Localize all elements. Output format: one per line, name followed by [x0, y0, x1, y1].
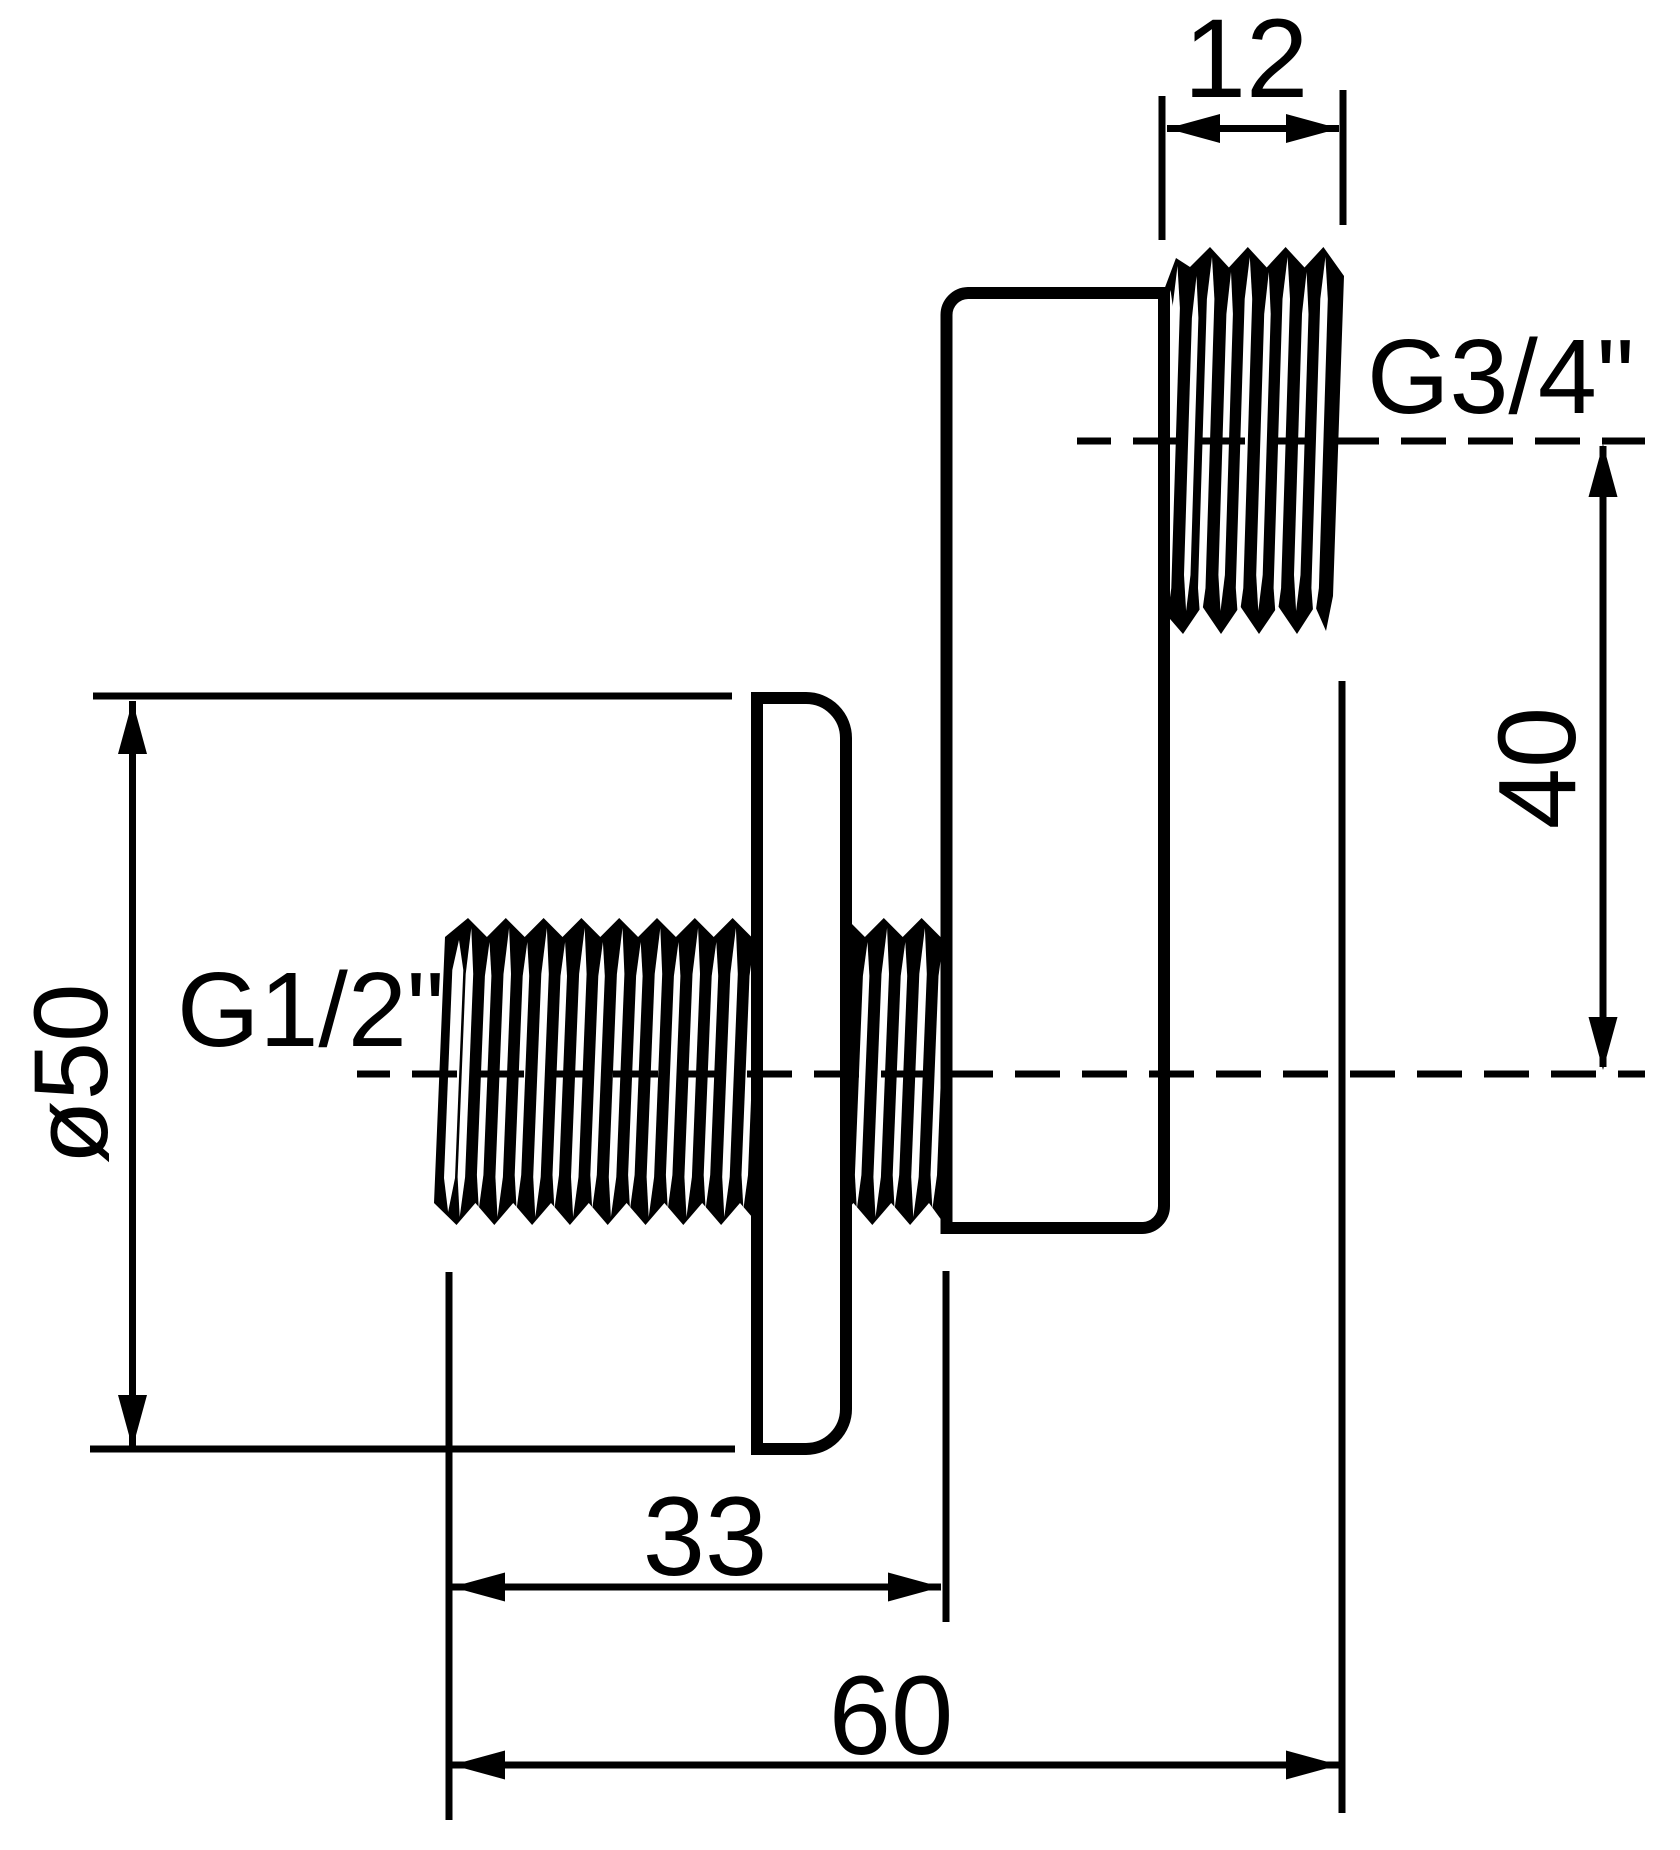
- svg-text:33: 33: [643, 1474, 768, 1599]
- dimension dia50 extension lines: [93, 693, 732, 700]
- dimension 33 line: [452, 1584, 941, 1591]
- svg-text:40: 40: [1476, 707, 1599, 829]
- dimension 60 line: [452, 1762, 1339, 1769]
- dimension dia50 line: [129, 701, 136, 1448]
- thread G1/2: [434, 918, 946, 1225]
- dimension 60 extension line: [1339, 681, 1346, 1813]
- svg-text:ø50: ø50: [13, 984, 130, 1165]
- svg-text:G3/4": G3/4": [1367, 318, 1634, 436]
- dimension 12 line: [1167, 125, 1339, 132]
- dimension 33 extension lines: [446, 1272, 453, 1820]
- dimension 12 extension lines: [1159, 96, 1166, 240]
- body: [947, 293, 1165, 1228]
- svg-text:60: 60: [829, 1653, 954, 1778]
- thread G3/4: [1157, 247, 1344, 634]
- svg-text:12: 12: [1184, 0, 1309, 121]
- svg-text:G1/2": G1/2": [177, 951, 444, 1069]
- dimension 40 line: [1600, 446, 1607, 1067]
- centerline G3/4 axis: [1077, 438, 1645, 445]
- centerline G1/2 axis: [357, 1071, 1645, 1078]
- flange: [757, 698, 846, 1449]
